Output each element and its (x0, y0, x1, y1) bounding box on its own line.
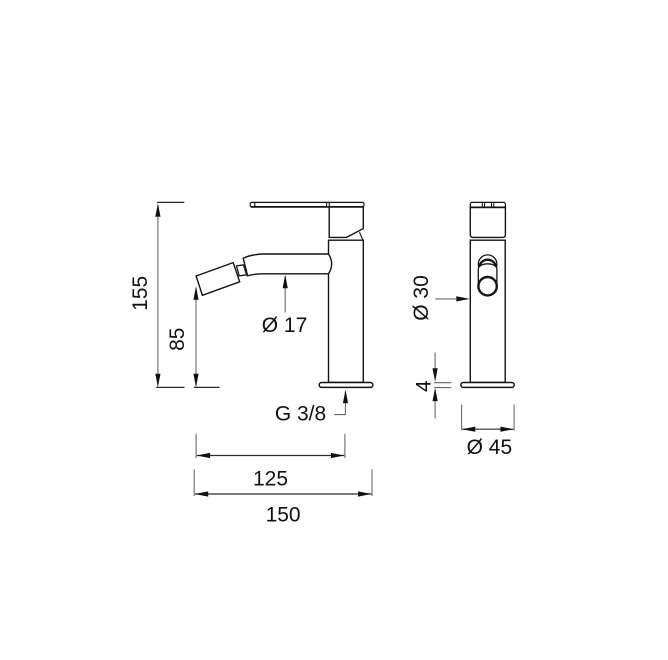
knob thick collar arc (479, 260, 496, 267)
dimension 4 tick bottom (434, 387, 451, 389)
base plate (side view) (461, 383, 514, 388)
dimension 150 line (195, 493, 371, 495)
dimension D30 arrow (456, 296, 470, 301)
dimension 150 extension left (193, 469, 195, 496)
dimension D45 arrow left (462, 427, 476, 432)
dimension 155 line (157, 205, 159, 386)
dimension 4 arrow down (433, 368, 438, 382)
svg-text:125: 125 (253, 468, 288, 491)
dimension D17 arrow (283, 275, 288, 289)
dimension 125 extension right (344, 434, 346, 458)
dimension D45 extension right (513, 405, 515, 431)
faucet body (front view) (329, 240, 364, 382)
svg-text:85: 85 (166, 328, 189, 351)
thread G3/8 arrow (343, 390, 348, 404)
handle housing (front view) (329, 207, 363, 238)
dimension 155 baseline tick (156, 386, 184, 388)
dimension 155 arrow down (155, 374, 160, 388)
dimension 125 arrow right (331, 453, 345, 458)
dimension 4 lower line (434, 401, 436, 419)
svg-text:155: 155 (129, 276, 152, 311)
spout neck (237, 265, 247, 276)
dimension 155 arrow up (155, 203, 160, 217)
aerator end piece (196, 263, 240, 296)
dimension 85 baseline tick (194, 386, 220, 388)
dimension 125 arrow left (197, 453, 211, 458)
dimension 150 extension right (371, 469, 373, 496)
svg-text:150: 150 (266, 503, 301, 526)
knob face circle (478, 277, 496, 295)
dimension 4 arrow up (433, 388, 438, 402)
dimension D17 leader line (284, 277, 286, 313)
svg-text:4: 4 (413, 380, 436, 392)
svg-text:G 3/8: G 3/8 (275, 403, 326, 426)
dimension 4 tick top (434, 382, 451, 384)
svg-text:Ø 30: Ø 30 (410, 275, 433, 321)
dimension 155 extension tick top (157, 201, 184, 203)
dimension 4 upper line (434, 353, 436, 369)
base plate (front view) (319, 383, 373, 388)
dimension 125 extension left (195, 434, 197, 458)
dimension 85 line (195, 288, 197, 386)
dimension 150 arrow right (358, 491, 372, 496)
dimension D45 arrow right (500, 427, 514, 432)
dimension 150 arrow left (195, 491, 209, 496)
handle housing (side view) (470, 207, 505, 238)
thread G3/8 leader (334, 392, 345, 415)
chamfer edge line (360, 232, 363, 240)
cartridge cap band (side view) (470, 202, 505, 207)
dimension D45 line (462, 428, 513, 430)
dimension 85 arrow down (193, 374, 198, 388)
dimension 85 arrow up (193, 286, 198, 300)
dimension 125 line (197, 455, 344, 457)
knob cylinder (478, 264, 497, 296)
svg-text:Ø 45: Ø 45 (467, 436, 513, 459)
dimension D30 leader (435, 298, 456, 300)
lever bar (front view) (250, 202, 364, 207)
knob back circle (478, 255, 497, 274)
faucet body (side view) (470, 240, 505, 382)
svg-text:Ø 17: Ø 17 (262, 314, 308, 337)
dimension D45 extension left (461, 405, 463, 431)
spout tube (243, 254, 331, 276)
